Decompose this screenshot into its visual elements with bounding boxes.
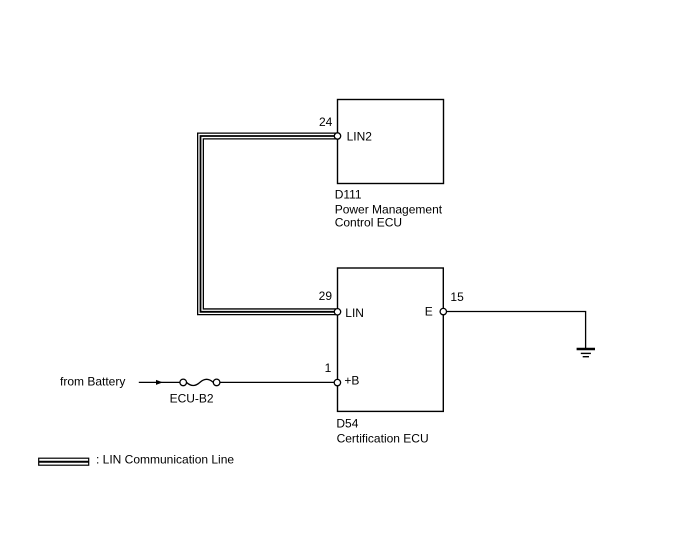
- svg-text:+B: +B: [344, 373, 359, 387]
- svg-text:15: 15: [450, 290, 464, 304]
- ECU box D111 Power Management Control ECU: [338, 100, 444, 184]
- wire: fuse to +B pin 1: [217, 381, 336, 383]
- wire: from Battery feed line with arrow: [139, 381, 180, 383]
- svg-text:from Battery: from Battery: [60, 374, 125, 388]
- svg-text:D54: D54: [336, 417, 358, 431]
- arrowhead on battery feed: [156, 380, 163, 385]
- ECU box D54 Certification ECU: [338, 268, 444, 411]
- fuse ECU-B2 symbol: [180, 379, 220, 386]
- svg-text:29: 29: [319, 289, 333, 303]
- svg-text:ECU-B2: ECU-B2: [170, 391, 214, 405]
- pin 1 terminal circle on D54: [334, 379, 340, 385]
- pin 24 terminal circle on D111: [334, 133, 340, 139]
- pin 15 terminal circle on D54: [440, 308, 446, 314]
- svg-text:LIN: LIN: [345, 306, 364, 320]
- legend: LIN communication line sample bar: [39, 458, 89, 465]
- svg-text:Control ECU: Control ECU: [335, 216, 402, 230]
- pin 29 terminal circle on D54: [334, 309, 340, 315]
- wire: LIN communication line from D111 pin 24 to D54 pin 29 (triple-stripe): [201, 136, 337, 312]
- ground symbol: [577, 349, 595, 357]
- svg-text:Power Management: Power Management: [335, 202, 443, 216]
- svg-text:LIN2: LIN2: [347, 130, 373, 144]
- svg-text:1: 1: [325, 361, 332, 375]
- wire: from E pin 15 to ground: [443, 312, 585, 349]
- svg-text:24: 24: [319, 115, 333, 129]
- svg-text:E: E: [425, 305, 433, 319]
- svg-text:Certification ECU: Certification ECU: [337, 432, 429, 446]
- svg-text:: LIN Communication Line: : LIN Communication Line: [96, 453, 234, 467]
- svg-text:D111: D111: [335, 187, 362, 201]
